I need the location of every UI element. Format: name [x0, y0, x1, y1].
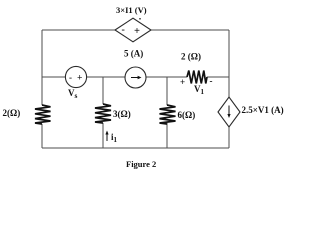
- svg-text:6(Ω): 6(Ω): [178, 110, 196, 120]
- svg-text:+: +: [77, 74, 82, 84]
- svg-text:-: -: [122, 25, 125, 36]
- svg-text:2(Ω): 2(Ω): [3, 108, 21, 118]
- svg-text:Vs: Vs: [68, 88, 78, 100]
- svg-text:3×I1 (V): 3×I1 (V): [116, 5, 147, 15]
- svg-text:5 (A): 5 (A): [124, 49, 143, 59]
- svg-text:-: -: [69, 73, 72, 83]
- svg-text:V1: V1: [194, 84, 205, 96]
- svg-text:i1: i1: [111, 132, 118, 144]
- svg-text:2.5×V1 (A): 2.5×V1 (A): [242, 105, 284, 115]
- svg-text:+: +: [134, 26, 140, 37]
- svg-text:+: +: [180, 77, 185, 87]
- svg-text:2 (Ω): 2 (Ω): [181, 52, 201, 62]
- svg-text:3(Ω): 3(Ω): [113, 109, 131, 119]
- svg-text:Figure 2: Figure 2: [126, 159, 156, 169]
- svg-text:-: -: [210, 76, 213, 86]
